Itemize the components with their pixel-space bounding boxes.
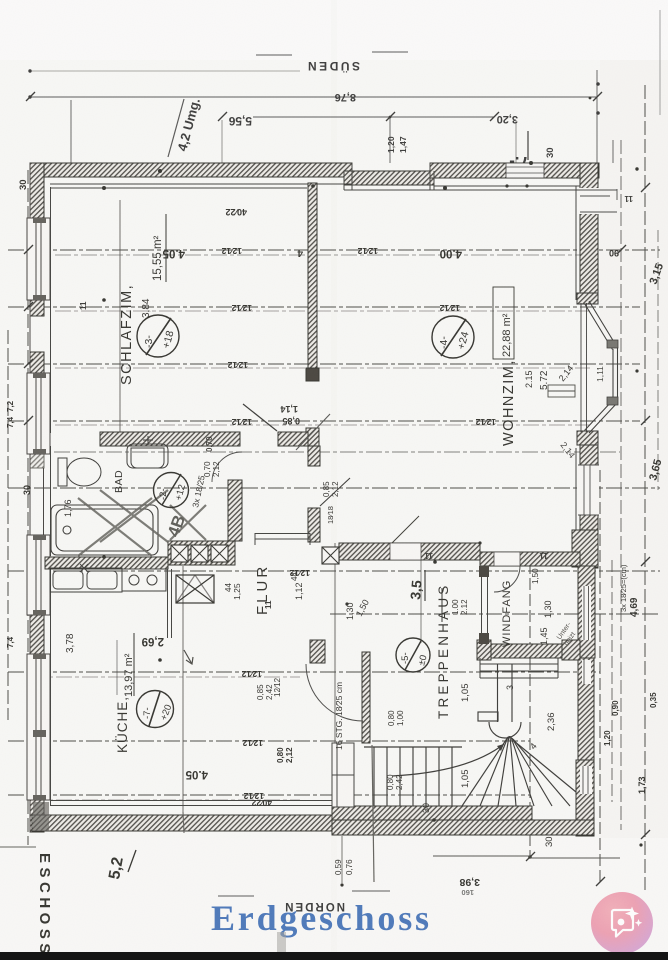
top wall recessed middle — [344, 171, 434, 185]
dim line y672 — [8, 671, 600, 673]
window top wall detail — [506, 167, 544, 173]
room circle -5- — [396, 638, 430, 672]
chimney box flur — [322, 547, 339, 564]
windfang right wall — [578, 566, 595, 658]
leader duct labels — [341, 836, 343, 883]
big chimney double X flur — [176, 575, 214, 603]
vert dim line x8 — [7, 330, 9, 720]
norden dash right — [352, 890, 390, 892]
vert dim line x645 — [644, 85, 646, 890]
dimension line bottom right — [530, 857, 620, 859]
stair south wall outer — [332, 820, 594, 835]
door arc stairhall — [306, 664, 363, 721]
dim line y364 — [8, 363, 640, 365]
underline 3,5 — [424, 570, 426, 601]
suden dash left — [256, 54, 292, 56]
underline 15,55 — [165, 214, 167, 282]
walk line arrow head — [497, 744, 504, 751]
bottom black bar — [0, 952, 668, 960]
vert dim line x621 — [620, 140, 622, 830]
window W4 kitchen long — [27, 654, 50, 800]
room circle -4-/+24 — [432, 316, 474, 358]
vert dim line x421 — [420, 560, 422, 643]
winder fan lines — [462, 737, 508, 806]
window W3 bath-kitchen — [27, 535, 50, 615]
window boxes left wall — [27, 218, 50, 800]
treppenhaus right window slots — [580, 660, 592, 794]
vertical guide x70 — [70, 100, 72, 163]
stair south wall inner — [332, 806, 532, 820]
stairhall west thin wall — [362, 652, 370, 743]
dim line y425b — [55, 424, 590, 426]
door leaf divider pencil stroke — [296, 414, 330, 450]
top wall window right — [506, 163, 544, 178]
dim line y250 — [8, 249, 660, 251]
straight flight tread lines — [373, 747, 375, 806]
chat bubble icon — [612, 910, 633, 937]
fold mark below title — [277, 932, 286, 952]
flur south double line — [255, 533, 310, 545]
left wall plane lines — [30, 163, 44, 832]
kitchen east wall stub — [168, 569, 172, 638]
step connector left — [351, 163, 353, 190]
windfang left wall — [479, 566, 489, 644]
chimney box 2 — [191, 545, 208, 562]
divider bottom block — [306, 428, 319, 446]
dim line y452 — [28, 451, 620, 453]
chimney box 3 — [211, 545, 228, 562]
bathtub — [51, 505, 158, 555]
pencil line through kitchen wall — [183, 812, 184, 833]
bay wall plane lines across opening — [580, 303, 582, 432]
bath east wall — [228, 480, 242, 541]
box 22,88 m2 — [493, 287, 514, 359]
door arc bath — [212, 452, 242, 482]
windfang north wall — [480, 552, 580, 566]
vertical guide x222 — [221, 120, 223, 163]
bay glazing vertical — [612, 349, 614, 402]
dim line y795 — [8, 794, 530, 796]
top wall left section — [30, 163, 352, 177]
stairhall west wall top — [310, 640, 325, 663]
bay glazing bottom diagonal — [589, 403, 617, 433]
door leaf wohnzim south — [392, 516, 419, 543]
window W1 — [27, 218, 50, 300]
step connector right — [429, 163, 431, 190]
toilet — [58, 458, 101, 486]
stair spine cap — [489, 722, 521, 738]
windfang bottom wall — [477, 644, 580, 658]
kitchen south wall — [32, 815, 335, 831]
vertical guide x597 — [596, 70, 598, 163]
entry steps outside windfang — [480, 658, 558, 678]
sparkle small — [635, 919, 643, 927]
walk line — [392, 744, 504, 776]
schlafzim axis x120 — [119, 200, 121, 432]
corner block right mid — [572, 530, 598, 567]
dim line y571 — [8, 570, 660, 572]
windfang axis x335 — [334, 543, 336, 828]
sparkle big — [625, 907, 639, 921]
dim line y252b — [55, 254, 590, 256]
door leaf wohnzim west — [320, 478, 350, 506]
suden dash right — [372, 51, 408, 53]
dark corner kitchen SW — [33, 802, 49, 831]
stair spine wall — [497, 664, 499, 722]
chimney box 1 — [171, 545, 188, 562]
vertical guide x613 — [612, 140, 614, 163]
flight top edge — [364, 746, 462, 748]
divider wall schlafzim/wohnzim — [308, 183, 317, 368]
bay glazing top diagonal — [589, 301, 617, 347]
duct shaft next to stairs — [332, 743, 354, 807]
chimney squares with X on bath south band — [171, 545, 339, 564]
room circle -2-/+12 — [154, 473, 189, 508]
wash basin bath — [127, 436, 168, 468]
kitchen stove — [122, 569, 166, 591]
dim line y311b — [55, 310, 590, 312]
windfang right window slot — [582, 586, 591, 640]
window right wall lower — [578, 465, 599, 515]
windfang bottom end block left — [477, 640, 491, 660]
schlafzim south wall right piece — [278, 432, 308, 446]
kitchen axis x183 — [182, 566, 184, 812]
vert dim line x28 — [27, 170, 29, 845]
kitchen arrow mark — [184, 650, 193, 664]
dim line y368b — [55, 367, 590, 369]
vert dim line x612 — [611, 560, 613, 802]
inner face left wall — [50, 187, 52, 433]
kitchen north wall — [45, 557, 168, 569]
vert dim line x658 — [657, 230, 659, 490]
window right wall upper with sill — [579, 188, 617, 214]
small 11 marks — [79, 194, 633, 609]
gray fold line left — [0, 846, 36, 848]
dim line y488 — [8, 487, 660, 489]
dim line y614 — [330, 613, 660, 615]
dimension line top faint — [30, 70, 300, 72]
survey dots top — [28, 69, 600, 118]
room circle -3-/+18 — [137, 315, 179, 357]
bottom right corner block — [576, 760, 594, 836]
dim line y799b — [30, 799, 300, 801]
tick 7 bracket — [527, 131, 529, 160]
pencil cross marks over bath — [78, 490, 206, 556]
bay corner block bottom — [577, 431, 598, 445]
chimney band bath south — [168, 541, 235, 565]
dim line y307 — [8, 306, 640, 308]
right border guide — [659, 10, 661, 115]
dim line y421 — [8, 420, 640, 422]
bay window — [577, 293, 618, 445]
windfang bottom end block right — [562, 640, 580, 660]
inner face right wall — [575, 186, 577, 300]
dimension line 5,56 / 3,20 — [253, 116, 494, 118]
vert dim line x600 — [599, 470, 601, 882]
norden dash left — [218, 895, 254, 897]
wohnzim west wall upper piece — [308, 446, 320, 466]
divider end block — [306, 368, 319, 381]
right exterior wall lower — [580, 445, 598, 568]
windfang north door gap — [494, 552, 520, 566]
schlafzim south wall — [100, 432, 240, 446]
kitchen south inner double line — [50, 800, 332, 802]
wohnzim west wall lower piece — [308, 508, 320, 542]
bay corner block top — [577, 293, 598, 304]
wohnzim south wall — [339, 543, 480, 560]
heater wohnzim — [548, 385, 575, 397]
bay joint bottom — [607, 397, 618, 405]
vert dim line x530 — [529, 562, 531, 857]
wohnzim south wall door gap — [390, 543, 421, 560]
top wall right section — [430, 163, 599, 178]
window W2 — [27, 373, 50, 454]
stroke after 5,2 — [128, 850, 136, 872]
pencil line right of duct — [372, 745, 374, 882]
left exterior wall segments — [30, 163, 44, 218]
underline 13,97 — [133, 633, 135, 696]
dim line y741 — [8, 740, 530, 742]
bracket 1.00 — [441, 588, 443, 622]
dim line y676b — [30, 676, 300, 678]
dimension line 8,76 — [30, 96, 597, 98]
vertical guide x516 — [515, 120, 517, 163]
kitchen sink unit — [50, 564, 122, 592]
vertical guide x390 — [389, 118, 391, 163]
bay joint top — [607, 340, 618, 348]
door leaf schlafzim — [243, 404, 277, 431]
room circle -7-/+20 — [137, 691, 175, 728]
dimension line bottom 3,98 — [433, 855, 530, 857]
stair top landing step — [478, 712, 498, 721]
door arc windfang entry — [494, 566, 520, 592]
inner face lines of top wall — [50, 163, 580, 806]
right exterior wall upper — [580, 163, 598, 303]
underline 4,2 Umg — [168, 99, 184, 157]
treppenhaus right wall — [578, 658, 594, 760]
